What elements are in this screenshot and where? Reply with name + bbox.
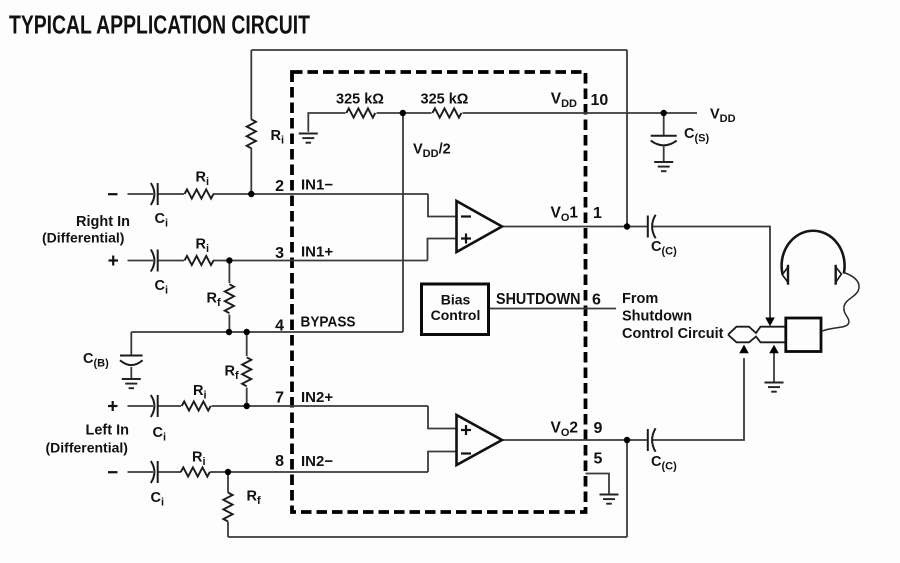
svg-text:10: 10 <box>591 92 609 109</box>
headphone cable <box>822 273 860 332</box>
capacitor Ci IN2+ <box>151 395 158 417</box>
wire VDD/2 vertical <box>402 113 404 332</box>
wire amp1 output to node <box>502 226 648 228</box>
wire C(B) top lead <box>130 332 132 355</box>
wire feedback rise to VO2 node <box>626 440 628 537</box>
svg-text:5: 5 <box>594 451 603 468</box>
op-amp U2 channel2 <box>457 415 503 465</box>
wire top feedback rail <box>251 49 627 51</box>
arrow VO1 into jack ring <box>765 318 775 327</box>
svg-text:SHUTDOWN: SHUTDOWN <box>496 291 581 308</box>
jack body box <box>786 318 821 352</box>
svg-text:TYPICAL APPLICATION CIRCUIT: TYPICAL APPLICATION CIRCUIT <box>9 12 310 40</box>
svg-text:(Differential): (Differential) <box>46 440 128 456</box>
wire VDD divider left lead with ground <box>308 113 345 132</box>
wire IN2+ jog into amp2 non-inverting input <box>428 406 457 429</box>
svg-text:Left In: Left In <box>86 423 130 439</box>
wire IN1+ cap to resistor <box>158 260 184 262</box>
node dot VDD/2 divider junction <box>400 110 406 116</box>
bias control block <box>422 284 489 335</box>
svg-text:Control: Control <box>431 307 481 323</box>
wire IN2- rail to op-amp jog <box>210 471 428 473</box>
wire IN1+ jog into amp1 non-inverting input <box>428 239 458 261</box>
wire BYPASS rail <box>131 331 403 333</box>
ground under C(S) <box>654 162 673 171</box>
svg-text:9: 9 <box>594 420 603 437</box>
svg-text:325 kΩ: 325 kΩ <box>336 92 384 108</box>
arrow ground into jack sleeve <box>769 345 779 354</box>
svg-text:BYPASS: BYPASS <box>301 314 356 331</box>
resistor 325k left <box>346 108 375 117</box>
capacitor C(C) output1 <box>648 215 656 239</box>
ground under 325k divider <box>299 134 318 143</box>
node dot BYPASS left junction <box>226 329 232 335</box>
wire Rf3 lower lead <box>227 522 229 537</box>
capacitor C(C) output2 <box>648 428 656 452</box>
capacitor C(S) supply <box>651 136 677 146</box>
node dot IN2+ junction <box>244 403 250 409</box>
node dot IN2- junction <box>225 469 231 475</box>
svg-text:Right In: Right In <box>76 214 130 230</box>
resistor 325k right <box>432 108 461 117</box>
svg-text:7: 7 <box>275 390 284 407</box>
wire Rf2 lower lead <box>246 388 248 406</box>
wire IN1- rail to op-amp jog <box>213 193 428 195</box>
svg-text:IN2+: IN2+ <box>301 389 333 406</box>
wire feedback Ri top riser <box>250 148 252 194</box>
svg-text:4: 4 <box>275 318 284 335</box>
node dot IN1- junction <box>248 191 254 197</box>
resistor Rf1 channel1 feedback lower <box>225 284 234 313</box>
resistor Ri series IN1- <box>185 189 214 198</box>
svg-text:6: 6 <box>592 292 601 309</box>
wire IN1- cap to resistor <box>158 193 184 195</box>
wire jack sleeve ground lead <box>773 353 775 382</box>
wire amp2 output to node <box>502 439 648 441</box>
node dot IN1+ junction <box>226 257 232 263</box>
headphone symbol <box>782 231 845 285</box>
svg-text:IN1+: IN1+ <box>301 244 333 261</box>
IC dashed boundary box <box>292 72 586 512</box>
ground at jack sleeve <box>765 383 784 392</box>
wire IN1- jog into amp1 inverting input <box>428 194 457 217</box>
wire Rf3 upper lead <box>227 472 229 493</box>
wire feedback Ri upper riser <box>250 50 252 120</box>
svg-text:Shutdown: Shutdown <box>622 309 692 325</box>
capacitor C(B) bypass <box>120 356 143 366</box>
input minus sign IN1- <box>108 193 118 195</box>
capacitor Ci IN1+ <box>151 250 158 272</box>
wire VO1 cap to jack corner <box>652 227 770 318</box>
svg-text:Bias: Bias <box>441 292 471 308</box>
svg-text:(Differential): (Differential) <box>42 230 124 246</box>
arrow VO2 into jack tip <box>739 345 749 354</box>
svg-text:IN2−: IN2− <box>301 453 333 470</box>
input plus sign IN1+ <box>109 256 119 266</box>
wire SHUTDOWN pin6 <box>489 308 617 310</box>
ground under C(B) <box>122 379 141 388</box>
svg-text:IN1−: IN1− <box>301 177 333 194</box>
op-amp U1 channel1 <box>457 201 503 252</box>
wire Rf2 upper lead <box>246 332 248 356</box>
node dot BYPASS right junction <box>244 329 250 335</box>
capacitor Ci IN1- <box>151 183 158 205</box>
svg-text:From: From <box>622 291 658 307</box>
resistor Ri feedback channel1 <box>247 119 256 148</box>
wire C(S) lower lead <box>663 147 665 162</box>
node dot VO2 junction <box>624 437 630 443</box>
resistor Ri series IN2+ <box>182 401 211 410</box>
wire VDD stub to label <box>664 112 697 114</box>
wire C(B) bottom lead <box>130 367 132 378</box>
wire IN2- input lead <box>128 471 154 473</box>
wire IN2+ rail to op-amp jog <box>212 405 429 407</box>
svg-text:325 kΩ: 325 kΩ <box>421 92 469 108</box>
wire VDD rail to supply node <box>463 112 664 114</box>
wire IN2+ cap to resistor <box>158 405 181 407</box>
wire Rf1 upper lead <box>228 261 230 284</box>
headphone jack plug <box>728 327 786 343</box>
wire Rf1 lower lead <box>228 315 230 333</box>
wire IN1- input lead <box>128 193 154 195</box>
wire IN1+ rail to op-amp jog <box>213 260 428 262</box>
wire IN2- jog into amp2 inverting input <box>428 452 457 473</box>
svg-text:2: 2 <box>275 178 284 195</box>
wire bottom feedback rail <box>228 536 627 538</box>
resistor Ri series IN2- <box>181 467 210 476</box>
svg-text:8: 8 <box>275 453 284 470</box>
wire IN1+ input lead <box>128 260 154 262</box>
ground at pin5 <box>600 495 619 504</box>
svg-text:3: 3 <box>275 245 284 262</box>
wire VO2 cap to jack riser <box>652 358 744 440</box>
svg-text:1: 1 <box>593 205 602 222</box>
svg-text:Control Circuit: Control Circuit <box>622 326 724 342</box>
node dot VDD supply junction <box>661 110 667 116</box>
resistor Ri series IN1+ <box>185 256 214 265</box>
resistor Rf2 channel2 upper <box>242 357 251 386</box>
wire IN2- cap to resistor <box>158 471 181 473</box>
wire C(S) upper lead <box>663 113 665 136</box>
node dot VO1 junction <box>624 223 630 229</box>
wire pin5 stub to ground <box>586 474 610 495</box>
wire VDD divider middle segment <box>377 112 432 114</box>
capacitor Ci IN2- <box>151 461 158 483</box>
wire IN2+ input lead <box>128 405 154 407</box>
input plus sign IN2+ <box>108 401 118 411</box>
resistor Rf3 channel2 feedback lower <box>223 493 232 522</box>
wire feedback drop to VO1 node <box>626 50 628 227</box>
input minus sign IN2- <box>108 471 118 473</box>
